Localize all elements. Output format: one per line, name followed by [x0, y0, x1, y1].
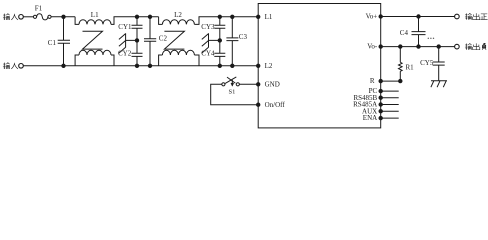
svg-text:F1: F1 [35, 4, 43, 12]
label output- (Chinese 输出负) [465, 43, 486, 49]
wire [51, 17, 75, 37]
node CY mid [135, 39, 138, 42]
module U1 box [258, 4, 381, 128]
svg-text:L2: L2 [174, 11, 182, 19]
node input- terminal [19, 64, 24, 69]
node input+ terminal [19, 14, 24, 19]
node CY3 top [218, 15, 221, 18]
svg-text:R: R [370, 77, 375, 85]
node C4 bottom [417, 45, 420, 48]
svg-text:Vo+: Vo+ [366, 13, 378, 21]
wire Vo- rail [381, 46, 455, 48]
wire CY1/CY2 branch [136, 17, 138, 66]
wire pin PC stub [381, 90, 399, 92]
node C3 bottom [231, 64, 234, 67]
ground chassis 1 [119, 33, 137, 53]
capacitor C1 [58, 37, 70, 66]
node pin PC [379, 89, 382, 92]
capacitor CY5 [433, 47, 445, 81]
node pin Vo+ [379, 15, 382, 18]
capacitor CY1 [132, 25, 143, 28]
node CY1 top [135, 15, 138, 18]
svg-text:S1: S1 [229, 89, 236, 96]
node J1 [62, 15, 65, 18]
label input+ (Chinese 输入) [3, 14, 18, 20]
node output- terminal [455, 44, 460, 49]
svg-text:C2: C2 [159, 35, 168, 43]
svg-text:C3: C3 [239, 33, 248, 41]
label C4 dots [428, 38, 435, 39]
wire R pin [381, 80, 401, 82]
capacitor CY2 [132, 53, 143, 56]
capacitor CY4 [214, 53, 225, 56]
node C2 top [148, 15, 151, 18]
node pin R [379, 79, 382, 82]
svg-text:R1: R1 [406, 63, 415, 71]
node C2 bottom [148, 64, 151, 67]
fuse F1 [33, 15, 36, 18]
wire GND to switch [239, 83, 258, 85]
node CY4 bottom [218, 64, 221, 67]
node pin L2 [257, 64, 260, 67]
wire pin RS485A stub [381, 104, 399, 106]
svg-text:L1: L1 [265, 13, 273, 21]
wire [23, 16, 33, 18]
wire pin ENA stub [381, 117, 399, 119]
wire top rail seg [137, 16, 159, 18]
svg-text:Vo-: Vo- [367, 43, 378, 51]
svg-text:CY3: CY3 [201, 23, 215, 31]
svg-text:C1: C1 [48, 39, 57, 47]
node C4 top [417, 15, 420, 18]
svg-text:ENA: ENA [363, 114, 377, 122]
wire Vo+ rail [381, 16, 455, 18]
svg-text:CY5: CY5 [420, 59, 434, 67]
svg-text:L1: L1 [91, 11, 99, 19]
node pin ENA [379, 116, 382, 119]
svg-text:C4: C4 [400, 29, 409, 37]
wire pin RS485B stub [381, 97, 399, 99]
node pin AUX [379, 110, 382, 113]
inductor L2 top winding [159, 17, 163, 25]
node pin OnOff [257, 103, 260, 106]
wire bottom rail [23, 65, 258, 67]
capacitor C4 [412, 17, 426, 47]
svg-text:On/Off: On/Off [265, 101, 286, 109]
node pin RS485A [379, 103, 382, 106]
node pin Vo- [379, 45, 382, 48]
node CY34 mid [218, 39, 221, 42]
node C3 top [231, 15, 234, 18]
inductor L2 bottom winding [159, 55, 163, 66]
node pin RS485B [379, 96, 382, 99]
svg-text:GND: GND [265, 81, 280, 89]
node R1 top [399, 45, 402, 48]
capacitor C2 [144, 17, 156, 66]
node J2 [62, 64, 65, 67]
svg-text:CY4: CY4 [201, 50, 215, 58]
node output+ terminal [455, 14, 460, 19]
capacitor CY3 [214, 25, 225, 28]
svg-text:CY1: CY1 [118, 23, 132, 31]
choke core Z of L2 [164, 31, 184, 49]
svg-text:L2: L2 [265, 62, 273, 70]
inductor L1 top winding [75, 17, 79, 25]
resistor R1 [399, 47, 403, 82]
label input- (Chinese 输入) [3, 63, 18, 69]
capacitor C3 [226, 17, 238, 66]
node CY2 bottom [135, 64, 138, 67]
switch S1 [236, 83, 239, 86]
label output+ (Chinese 输出正) [465, 13, 488, 19]
ground chassis 2 [202, 33, 220, 53]
svg-text:CY2: CY2 [118, 50, 132, 58]
wire switch loop [211, 84, 259, 104]
node pin L1 [257, 15, 260, 18]
node R1 bottom [399, 79, 402, 82]
node pin GND [257, 83, 260, 86]
node CY5 top [437, 45, 440, 48]
inductor L1 bottom winding [75, 55, 79, 66]
wire CY3/CY4 branch [219, 17, 221, 66]
ground chassis 3 [431, 81, 447, 87]
choke core Z of L1 [83, 31, 103, 49]
wire pin AUX stub [381, 110, 399, 112]
